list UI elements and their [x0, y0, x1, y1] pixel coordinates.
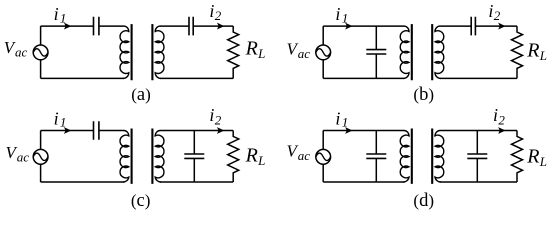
svg-text:(a): (a): [131, 85, 151, 105]
svg-text:2: 2: [215, 8, 222, 23]
svg-text:1: 1: [342, 10, 349, 25]
svg-text:i: i: [54, 4, 59, 24]
svg-text:ac: ac: [15, 45, 28, 60]
svg-text:(d): (d): [413, 191, 434, 211]
svg-text:1: 1: [342, 115, 349, 130]
svg-text:i: i: [209, 1, 214, 21]
svg-text:R: R: [526, 40, 539, 62]
svg-text:R: R: [526, 146, 539, 168]
svg-text:R: R: [245, 38, 258, 60]
svg-text:i: i: [54, 108, 59, 128]
svg-text:L: L: [539, 154, 547, 169]
svg-text:ac: ac: [17, 150, 30, 165]
svg-text:i: i: [335, 4, 340, 24]
svg-text:1: 1: [60, 115, 67, 130]
svg-text:R: R: [245, 145, 258, 167]
svg-text:2: 2: [215, 112, 222, 127]
svg-text:1: 1: [60, 10, 67, 25]
svg-text:L: L: [257, 46, 265, 61]
svg-text:i: i: [335, 108, 340, 128]
svg-text:ac: ac: [298, 46, 311, 61]
svg-text:2: 2: [494, 8, 501, 23]
svg-text:L: L: [539, 48, 547, 63]
svg-text:(c): (c): [131, 191, 151, 211]
svg-text:2: 2: [498, 112, 505, 127]
svg-text:i: i: [209, 105, 214, 125]
svg-text:L: L: [257, 153, 265, 168]
svg-text:i: i: [493, 105, 498, 125]
svg-text:ac: ac: [298, 148, 311, 163]
svg-text:(b): (b): [413, 85, 434, 105]
svg-text:i: i: [488, 1, 493, 21]
